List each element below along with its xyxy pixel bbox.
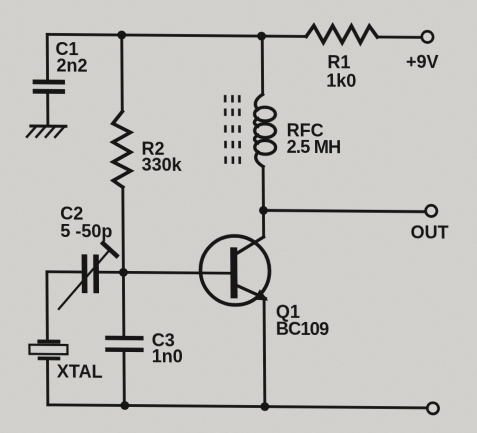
svg-text:1k0: 1k0	[326, 71, 356, 91]
svg-text:2n2: 2n2	[56, 56, 87, 76]
svg-text:2.5 MH: 2.5 MH	[287, 137, 341, 157]
svg-text:+9V: +9V	[406, 52, 439, 72]
svg-text:1n0: 1n0	[152, 346, 183, 366]
svg-text:5 -50p: 5 -50p	[60, 221, 112, 241]
svg-text:OUT: OUT	[411, 222, 449, 242]
svg-text:330k: 330k	[142, 154, 183, 174]
svg-text:R1: R1	[327, 52, 350, 72]
svg-text:XTAL: XTAL	[57, 362, 103, 382]
svg-text:BC109: BC109	[276, 318, 329, 338]
